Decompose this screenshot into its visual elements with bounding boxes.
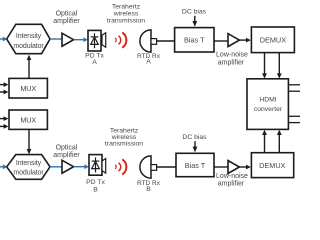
svg-text:transmission: transmission [107, 17, 145, 24]
PD Tx A box with photodiode symbol [88, 30, 101, 51]
svg-text:Bias T: Bias T [184, 36, 205, 45]
wire low-noise amplifier B to DEMUX B [239, 165, 250, 170]
svg-text:amplifier: amplifier [218, 181, 245, 188]
svg-text:Optical: Optical [56, 11, 78, 18]
label RTD Rx B [137, 180, 161, 193]
svg-text:A: A [92, 59, 97, 66]
MUX A box [9, 78, 47, 98]
label Terahertz wireless transmission (bottom) [105, 127, 143, 147]
svg-text:wireless: wireless [113, 10, 139, 17]
terahertz waves B (red arcs) [115, 159, 126, 174]
wire MUX A to intensity modulator A [27, 55, 32, 79]
label Optical amplifier B [53, 144, 80, 159]
Bias T B box [176, 153, 214, 176]
label Optical amplifier A [53, 11, 80, 26]
RTD Rx A lens + stub [140, 30, 157, 52]
wire HDMI output lines (bottom pair) [288, 116, 300, 122]
label Terahertz wireless transmission (top) [107, 3, 145, 24]
svg-text:Bias T: Bias T [185, 161, 206, 170]
Bias T A box [175, 28, 214, 52]
wire MUX B to intensity modulator B [27, 129, 32, 154]
svg-text:modulator: modulator [13, 43, 44, 50]
intensity modulator B (Mach-Zehnder hexagon) [7, 155, 50, 180]
svg-text:transmission: transmission [105, 141, 143, 148]
svg-text:DEMUX: DEMUX [259, 161, 285, 170]
svg-text:Low-noise: Low-noise [216, 52, 248, 59]
wire RTD Rx A to Bias T A [157, 40, 175, 42]
wire DC bias arrow into Bias T A [192, 16, 197, 27]
svg-text:converter: converter [254, 106, 283, 113]
wire HDMI output lines (top pair) [288, 85, 300, 91]
wire Bias T A to low-noise amplifier A [214, 40, 228, 42]
svg-text:Terahertz: Terahertz [112, 3, 141, 10]
label Low-noise amplifier B [216, 173, 248, 188]
svg-text:DC bias: DC bias [182, 134, 207, 141]
PD Tx B box with photodiode symbol [89, 155, 102, 176]
RTD Rx B lens + stub [140, 156, 157, 178]
wire DEMUX B to HDMI converter (left) [262, 130, 267, 153]
DEMUX A box [251, 27, 294, 53]
wire modulator B to optical amplifier B [50, 166, 62, 168]
low-noise amplifier A triangle [228, 34, 239, 47]
wire DEMUX B to HDMI converter (right) [277, 130, 282, 153]
wire Bias T B to low-noise amplifier B [214, 166, 228, 168]
svg-text:Intensity: Intensity [16, 33, 42, 40]
svg-text:MUX: MUX [20, 116, 36, 125]
svg-text:DEMUX: DEMUX [260, 36, 286, 45]
wire DC bias arrow into Bias T B [193, 141, 198, 152]
svg-text:amplifier: amplifier [53, 152, 80, 159]
optical amplifier A triangle [62, 33, 74, 46]
optical amplifier B triangle [62, 160, 74, 173]
label PD Tx A [85, 52, 104, 66]
svg-text:A: A [146, 59, 151, 66]
wire DEMUX A to HDMI converter (right) [277, 53, 282, 79]
svg-text:DC bias: DC bias [182, 9, 207, 16]
wire modulator A to optical amplifier A [50, 38, 62, 40]
svg-text:HDMI: HDMI [259, 97, 276, 104]
svg-text:Intensity: Intensity [16, 160, 42, 167]
intensity modulator A (Mach-Zehnder hexagon) [7, 24, 50, 53]
HDMI converter box [247, 79, 288, 130]
wire blue input arrow into intensity modulator A [0, 37, 7, 42]
svg-text:amplifier: amplifier [53, 18, 80, 25]
horn antenna A [102, 33, 106, 48]
wire optical amplifier B to PD Tx B [74, 164, 89, 169]
low-noise amplifier B triangle [228, 161, 239, 174]
svg-text:modulator: modulator [13, 170, 44, 177]
label PD Tx B [86, 179, 105, 193]
svg-text:B: B [93, 186, 98, 193]
wire input arrows into MUX A [0, 82, 8, 94]
label Low-noise amplifier A [216, 52, 248, 67]
wire DEMUX A to HDMI converter (left) [262, 53, 267, 79]
terahertz waves A (red arcs) [115, 33, 126, 48]
DEMUX B box [251, 153, 293, 178]
wire RTD Rx B to Bias T B [157, 166, 176, 168]
svg-text:Low-noise: Low-noise [216, 173, 248, 180]
wire optical amplifier A to PD Tx A [74, 37, 88, 42]
wire blue input arrow into intensity modulator B [0, 164, 7, 169]
MUX B box [9, 110, 47, 129]
svg-text:B: B [146, 186, 151, 193]
svg-text:amplifier: amplifier [218, 59, 245, 66]
horn antenna B [102, 159, 106, 174]
svg-text:MUX: MUX [20, 84, 36, 93]
label RTD Rx A [137, 53, 161, 66]
wire low-noise amplifier A to DEMUX A [239, 38, 250, 43]
svg-text:Optical: Optical [56, 144, 78, 151]
svg-text:PD Tx: PD Tx [86, 179, 105, 186]
wire input arrows into MUX B [0, 116, 8, 129]
